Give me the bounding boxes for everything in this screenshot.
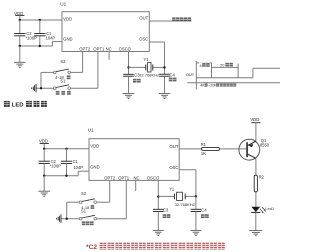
wire R1 to Q1 base — [220, 148, 247, 150]
switch S1 (充电时) — [54, 79, 71, 95]
svg-text:S1: S1 — [60, 79, 66, 84]
wire switch common to ground (bottom) — [61, 218, 79, 220]
IC U1 (top) timer chip — [60, 2, 149, 52]
label 低电平输出 (net label on OUT) — [172, 17, 191, 21]
ground (top-left) — [14, 46, 26, 67]
waveform low line — [196, 77, 253, 79]
capacitor C2 *106P (bottom) — [39, 149, 62, 176]
wire ground bus to U1 pin GND — [19, 42, 62, 48]
ground (under LED) — [249, 231, 262, 236]
waveform baseline — [187, 82, 280, 84]
wire switch common to ground — [36, 87, 53, 89]
title 推 LED 应用图 — [4, 101, 47, 109]
svg-text:32.768KHZ: 32.768KHZ — [175, 202, 196, 207]
waveform rising edge 2 — [253, 68, 280, 78]
pin stub NC (U1 top) — [108, 52, 110, 60]
svg-text:OSCO: OSCO — [119, 47, 132, 52]
ground (under C4) — [159, 94, 171, 99]
svg-text:OPT2: OPT2 — [79, 47, 91, 52]
svg-text:OSC: OSC — [139, 37, 148, 42]
label 4K开~20K关为周期 — [200, 83, 236, 87]
wire U1 OSC to crystal node (bottom) — [179, 170, 196, 197]
waveform axis (vertical) — [195, 61, 197, 89]
wire U1 pin OPT1 to switch S1 — [71, 52, 98, 89]
capacitor C2 *106P — [14, 20, 37, 46]
svg-text:R2: R2 — [259, 175, 265, 180]
svg-text:C3: C3 — [163, 208, 169, 213]
capacitor C1 104P (bottom) — [61, 149, 83, 176]
capacitor C3 (微调) — [123, 73, 140, 94]
svg-text:S2: S2 — [60, 59, 66, 64]
svg-text:Y1: Y1 — [144, 57, 150, 62]
wire U1 OSC to crystal node — [149, 42, 164, 68]
wire U1 pin OPT2 to switch S2 (bottom) — [97, 180, 110, 202]
svg-text:1K: 1K — [201, 151, 206, 156]
crystal Y1 32.768KHZ (bottom) — [158, 186, 196, 207]
svg-text:VDD: VDD — [39, 139, 48, 144]
wire ground bus to U1 pin GND (bottom) — [43, 171, 89, 177]
switch S2 (4-18时) — [54, 59, 71, 80]
resistor R1 1K — [201, 142, 220, 156]
pin stub NC (U1 bottom) — [135, 180, 137, 191]
ground (bottom-left) — [38, 176, 50, 197]
svg-text:104P: 104P — [46, 35, 56, 40]
svg-text:S1: S1 — [81, 209, 87, 214]
transistor Q1 8550 (PNP) — [239, 138, 270, 160]
svg-text:20: 20 — [220, 63, 225, 68]
power VDD (bottom-left supply post) — [39, 139, 49, 149]
wire S2 to ground rail (bottom) — [67, 202, 80, 219]
capacitor C3 (微调, bottom) — [153, 208, 170, 231]
ground (switch common, bottom) — [56, 214, 61, 223]
label 4小时 — [199, 63, 210, 68]
resistor R2 — [254, 175, 264, 192]
ground (switch common, left) — [31, 84, 36, 93]
crystal Y1 32.768KHZ (top) — [129, 57, 165, 77]
svg-text:4K: 4K — [200, 83, 205, 87]
svg-text:OUT: OUT — [139, 15, 148, 20]
wire U1 OUT (low level output net) — [149, 20, 191, 22]
note *C2 电容可根据电源实际需要调整或省略 (red) — [86, 243, 225, 252]
svg-text:NC: NC — [106, 47, 112, 52]
IC U1 (bottom) timer chip — [88, 127, 179, 180]
svg-text:C1: C1 — [73, 159, 79, 164]
svg-text:GND: GND — [63, 36, 72, 41]
svg-text:OUT: OUT — [170, 144, 179, 149]
waveform OUT label — [186, 72, 195, 77]
svg-text:OPT2: OPT2 — [104, 176, 116, 181]
svg-text:*C2: *C2 — [86, 244, 97, 251]
svg-text:R1: R1 — [201, 142, 207, 147]
svg-text:LED: LED — [12, 103, 24, 109]
wire U1 pin OPT2 to switch S2 — [71, 52, 83, 73]
label 20小时 — [220, 62, 236, 67]
svg-text:GND: GND — [90, 164, 99, 169]
power VDD (transistor emitter supply) — [250, 117, 260, 141]
power VDD (top-left supply post) — [14, 11, 24, 20]
svg-text:32.768KHZ: 32.768KHZ — [139, 72, 160, 77]
wire U1 pin OSCO to crystal node (bottom) — [157, 180, 159, 209]
svg-text:OPT1: OPT1 — [118, 176, 130, 181]
LED Led1 — [251, 206, 275, 213]
svg-text:104P: 104P — [73, 165, 83, 170]
ground (under C4, bottom) — [190, 230, 201, 235]
svg-text:OSC: OSC — [169, 165, 178, 170]
svg-text:S2: S2 — [81, 191, 87, 196]
svg-text:U1: U1 — [88, 127, 94, 132]
wire VDD rail to U1 pin VDD (bottom) — [43, 148, 89, 150]
svg-text:VDD: VDD — [63, 17, 72, 22]
wire U1 pin OPT1 to switch S1 (bottom) — [97, 180, 127, 218]
wire U1 pin OSCO to crystal node — [127, 52, 129, 75]
svg-text:OSCO: OSCO — [147, 176, 160, 181]
wire LED cathode to ground — [255, 212, 257, 230]
svg-text:OUT: OUT — [186, 72, 195, 77]
svg-text:C3: C3 — [134, 73, 140, 78]
svg-text:U1: U1 — [60, 2, 66, 7]
capacitor C1 104P — [34, 20, 55, 46]
switch S2 (4-18时, bottom) — [79, 191, 96, 210]
svg-text:8550: 8550 — [260, 143, 270, 148]
svg-text:NC: NC — [134, 176, 140, 181]
svg-text:Y1: Y1 — [169, 186, 175, 191]
svg-text:~20K: ~20K — [208, 83, 217, 87]
switch S1 (充电时, bottom) — [79, 209, 96, 226]
svg-text:C4: C4 — [170, 72, 176, 77]
ground (under C3, bottom) — [153, 230, 164, 235]
svg-text:C4: C4 — [201, 208, 207, 213]
wire U1 OUT to R1 — [179, 148, 201, 150]
waveform dim line (20小时) — [212, 64, 239, 78]
svg-text:VDD: VDD — [250, 117, 259, 122]
wire VDD rail to U1 pin VDD — [19, 19, 62, 21]
wire Q1 collector to R2 — [255, 158, 257, 175]
svg-text:*106P: *106P — [50, 163, 61, 168]
wire S2 to ground rail — [41, 72, 54, 88]
svg-text:VDD: VDD — [90, 144, 99, 149]
capacitor C4 (微调, bottom) — [191, 195, 209, 230]
svg-text:Led1: Led1 — [265, 206, 275, 211]
svg-text:OPT1: OPT1 — [93, 47, 105, 52]
capacitor C4 (微调) — [159, 66, 176, 93]
waveform pulse high (4小时) — [196, 63, 211, 78]
wire R2 to LED — [255, 192, 257, 207]
ground (under C3) — [123, 94, 135, 99]
